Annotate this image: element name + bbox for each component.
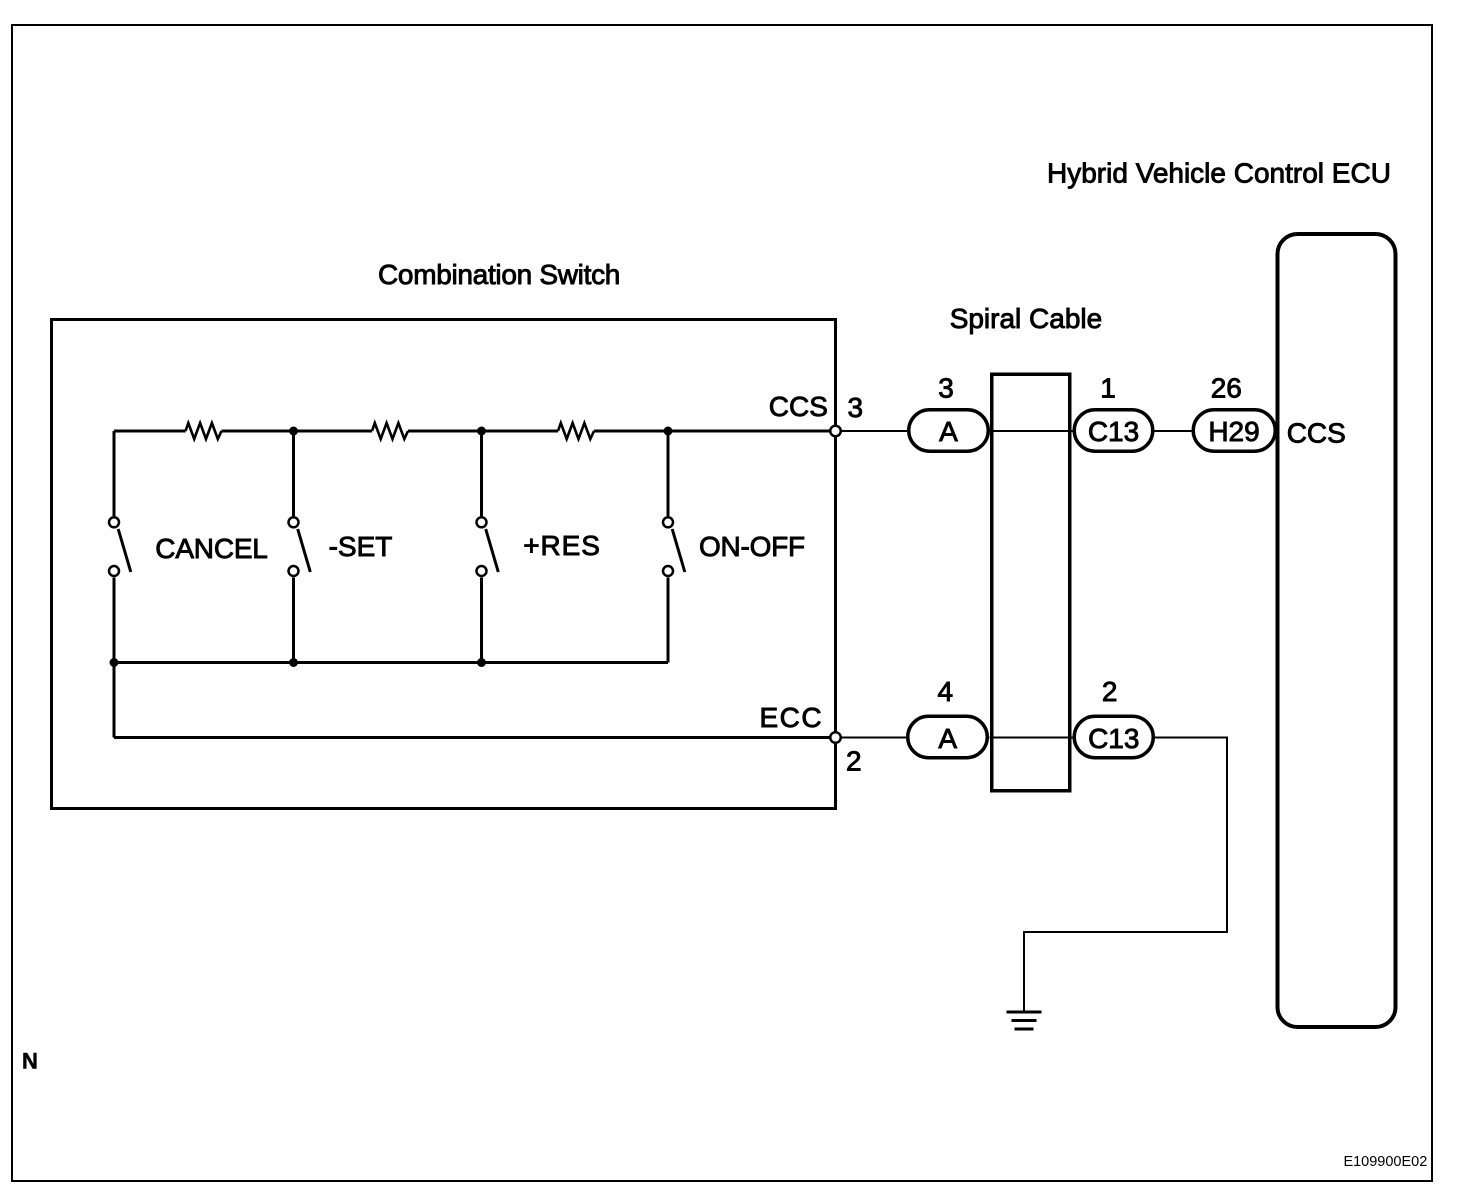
switch -SET [289, 517, 311, 576]
switch +RES [477, 517, 499, 576]
wire top bus segment 3 [408, 430, 558, 433]
wire riser CANCEL top [113, 431, 116, 516]
connector A bottom oval [908, 716, 988, 758]
svg-text:CANCEL: CANCEL [155, 533, 267, 564]
junction top 1 [289, 427, 298, 436]
svg-text:2: 2 [846, 746, 862, 777]
combination switch box [52, 320, 836, 809]
wire inside spiral cable bottom [990, 737, 1073, 739]
wire node ECC to connector A [836, 737, 907, 739]
svg-text:4: 4 [938, 676, 954, 707]
svg-text:Combination Switch: Combination Switch [378, 259, 620, 290]
wire top bus segment 2 [222, 430, 373, 433]
wire CANCEL bottom [113, 578, 116, 663]
wire riser ON-OFF top [667, 431, 670, 516]
wire riser +RES top [480, 431, 483, 516]
switch ON-OFF [663, 517, 685, 576]
svg-text:A: A [939, 416, 958, 447]
wire bottom bus [114, 661, 668, 664]
node CCS open circle [830, 426, 841, 437]
junction top 3 [664, 427, 673, 436]
wire top bus segment 4 [594, 430, 836, 433]
svg-text:E109900E02: E109900E02 [1343, 1154, 1427, 1170]
resistor R3 [558, 423, 594, 439]
junction top 2 [477, 427, 486, 436]
svg-text:N: N [22, 1048, 38, 1073]
wire riser -SET top [292, 431, 295, 516]
junction bottom 3 [477, 658, 486, 667]
svg-text:Spiral Cable: Spiral Cable [950, 303, 1103, 334]
wire ON-OFF bottom [667, 578, 670, 663]
node ECC open circle [830, 732, 841, 743]
wire left drop [113, 663, 116, 738]
resistor R1 [186, 423, 222, 439]
ground symbol [1007, 1012, 1042, 1029]
svg-text:CCS: CCS [1287, 418, 1346, 449]
wire ECC lower bus [114, 736, 836, 739]
svg-text:+RES: +RES [523, 530, 601, 561]
svg-text:Hybrid Vehicle Control ECU: Hybrid Vehicle Control ECU [1047, 158, 1391, 189]
svg-text:ON-OFF: ON-OFF [699, 531, 805, 562]
svg-text:-SET: -SET [329, 531, 393, 562]
wire C13 bottom to corner [1024, 738, 1227, 1013]
wire +RES bottom [480, 578, 483, 663]
wire node CCS to connector A [836, 430, 908, 432]
wire CCS top bus left segment [114, 430, 186, 433]
svg-text:C13: C13 [1088, 416, 1139, 447]
svg-text:C13: C13 [1088, 723, 1139, 754]
svg-text:2: 2 [1102, 676, 1118, 707]
connector H29 oval [1193, 410, 1275, 452]
connector C13 bottom oval [1074, 716, 1153, 758]
svg-text:CCS: CCS [769, 391, 828, 422]
resistor R2 [372, 423, 408, 439]
svg-text:26: 26 [1211, 373, 1242, 404]
wire inside spiral cable top [990, 430, 1073, 432]
svg-text:H29: H29 [1208, 416, 1259, 447]
wire -SET bottom [292, 578, 295, 663]
connector A top oval [909, 410, 989, 452]
svg-text:A: A [938, 723, 957, 754]
spiral cable box [992, 374, 1070, 791]
switch CANCEL [109, 517, 131, 576]
connector C13 top oval [1074, 410, 1153, 452]
wire C13 to H29 [1155, 430, 1192, 432]
svg-text:3: 3 [938, 373, 954, 404]
svg-text:3: 3 [848, 392, 864, 423]
svg-text:1: 1 [1100, 373, 1116, 404]
junction bottom 2 [289, 658, 298, 667]
svg-text:ECC: ECC [760, 702, 824, 733]
hybrid vehicle control ECU box [1278, 234, 1396, 1027]
junction bottom 1 [110, 658, 119, 667]
